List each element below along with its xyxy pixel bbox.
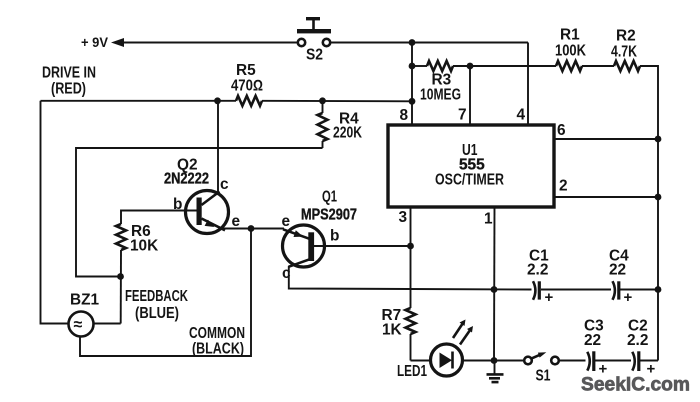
wire COMMON black (80, 229, 251, 357)
resistor R2 (614, 61, 640, 71)
svg-text:3: 3 (399, 209, 408, 226)
svg-text:1K: 1K (382, 322, 402, 339)
transistor Q2 (186, 191, 229, 234)
wire BZ1 left / drive-in vertical (41, 101, 69, 324)
svg-text:2.2: 2.2 (627, 332, 648, 349)
junction Q1 base / pin 3 (407, 243, 414, 250)
resistor R6 (116, 224, 126, 324)
svg-text:470Ω: 470Ω (231, 78, 263, 95)
wire Q1 collector elbow (289, 266, 532, 290)
wire S1 to C3 (559, 360, 586, 362)
wire DRIVE IN rail left segment (41, 100, 237, 102)
svg-text:LED1: LED1 (397, 363, 427, 380)
node +9V arrow (111, 38, 124, 47)
resistor R5 (236, 96, 262, 106)
svg-text:Q1: Q1 (322, 189, 337, 206)
wire C4 to right rail (620, 289, 658, 291)
wire C1 to C4 (541, 289, 611, 291)
svg-text:2.2: 2.2 (527, 262, 548, 279)
svg-text:b: b (173, 196, 182, 213)
capacitor C3 (587, 351, 607, 377)
junction pin1 / ground (491, 357, 498, 364)
svg-text:7: 7 (458, 107, 467, 124)
svg-text:R1: R1 (560, 27, 580, 44)
wire pin 4 vertical (527, 43, 529, 127)
resistor R1 (556, 61, 582, 71)
wire pin 1 vertical (493, 207, 496, 361)
svg-text:220K: 220K (333, 125, 362, 142)
svg-text:MPS2907: MPS2907 (301, 207, 357, 224)
svg-text:4.7K: 4.7K (611, 44, 637, 61)
wire +9V to S2 (122, 42, 298, 44)
wire pin 6 (554, 138, 658, 140)
svg-text:10K: 10K (130, 238, 158, 255)
svg-text:10MEG: 10MEG (420, 87, 461, 104)
wire Q2 base (121, 211, 198, 225)
junction R5 wire / pin8 (409, 98, 416, 105)
junction R6 bottom (117, 273, 124, 280)
wire R5 to pin8 column (262, 100, 412, 103)
svg-text:b: b (330, 228, 339, 245)
svg-text:(BLUE): (BLUE) (135, 305, 179, 322)
pushbutton S2 (297, 17, 331, 46)
junction R5 / R4 (319, 97, 326, 104)
wire R7 to LED1 (411, 360, 431, 362)
junction pin2 / right rail (655, 194, 662, 201)
wire pin 8 vertical (411, 43, 413, 127)
svg-text:(BLACK): (BLACK) (192, 341, 244, 358)
capacitor C2 (632, 351, 655, 377)
svg-text:+ 9V: + 9V (81, 35, 108, 50)
wire S2 to pin4 corner (331, 42, 529, 44)
capacitor C4 (613, 281, 633, 306)
svg-text:S2: S2 (306, 47, 323, 64)
svg-text:2N2222: 2N2222 (164, 171, 209, 188)
resistor R3 (427, 61, 453, 71)
svg-text:≈: ≈ (74, 317, 83, 334)
junction pin6 / right rail (655, 136, 662, 143)
junction Vcc / pin8 column (409, 39, 416, 46)
wire R6 to buzzer (94, 323, 121, 325)
wire right rail (640, 66, 658, 361)
wire Q2 emitter to Q1 emitter (223, 228, 284, 230)
wire R4 bottom to feedback column (76, 148, 323, 277)
capacitor C1 (533, 281, 554, 306)
wire pin 3 vertical (410, 207, 412, 308)
svg-text:(RED): (RED) (51, 81, 86, 98)
resistor R7 (406, 308, 416, 361)
wire Q2 collector (217, 101, 219, 192)
svg-text:+: + (624, 289, 633, 306)
chip U1 555 (388, 125, 554, 207)
switch S1 (524, 352, 559, 364)
junction pin8 / R3 (409, 63, 416, 70)
svg-text:100K: 100K (555, 43, 586, 60)
svg-text:22: 22 (584, 332, 601, 349)
svg-text:OSC/TIMER: OSC/TIMER (435, 172, 504, 189)
svg-text:BZ1: BZ1 (70, 292, 100, 309)
wire R1 to R2 (582, 65, 614, 67)
svg-text:22: 22 (609, 262, 626, 279)
wire pin8 to R3 (412, 65, 427, 67)
svg-text:1: 1 (484, 211, 493, 228)
svg-text:COMMON: COMMON (189, 325, 245, 342)
svg-text:FEEDBACK: FEEDBACK (125, 288, 188, 305)
wire pin 7 vertical (469, 66, 471, 126)
svg-text:S1: S1 (536, 368, 551, 385)
transistor Q1 (283, 225, 325, 267)
junction R3 / pin 7 (467, 63, 474, 70)
svg-text:R5: R5 (236, 62, 256, 79)
svg-text:6: 6 (557, 122, 566, 139)
svg-text:8: 8 (400, 107, 409, 124)
LED D1 (431, 320, 474, 377)
junction C4 / right rail (655, 286, 662, 293)
wire R3 to R1 (453, 65, 556, 67)
svg-text:+: + (545, 289, 554, 306)
wire C3 to C2 (595, 360, 631, 362)
junction emitter / common (248, 225, 255, 232)
svg-text:e: e (232, 213, 241, 230)
svg-text:e: e (282, 213, 291, 230)
junction R5 / Q2 collector (214, 97, 221, 104)
wire Q1 base (313, 245, 411, 247)
wire C2 to right rail (640, 360, 658, 362)
wire LED1 to ground node (463, 360, 525, 362)
svg-text:4: 4 (517, 107, 526, 124)
resistor R4 (318, 101, 328, 148)
svg-text:DRIVE IN: DRIVE IN (42, 65, 96, 82)
svg-text:SeekIC.com: SeekIC.com (581, 375, 690, 396)
svg-text:c: c (220, 176, 229, 193)
junction collector wire / pin 1 (491, 286, 498, 293)
buzzer BZ1 (69, 312, 94, 337)
svg-text:R2: R2 (616, 28, 636, 45)
svg-text:2: 2 (559, 178, 568, 195)
ground (487, 361, 504, 383)
wire pin 2 (554, 196, 658, 198)
